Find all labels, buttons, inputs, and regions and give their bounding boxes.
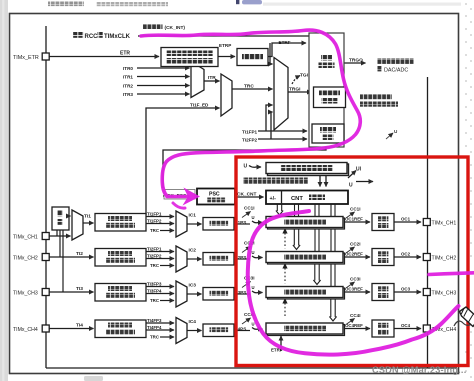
mux TRC selector <box>221 74 232 116</box>
svg-text:OC1: OC1 <box>401 217 411 222</box>
capture/compare 2 register box <box>268 253 345 264</box>
hollow down arrow into CC4 <box>330 298 332 318</box>
wire ITR0 <box>137 67 190 69</box>
mux TI1 selector <box>72 210 83 240</box>
wire IC3PS to register <box>234 293 250 295</box>
component U2: slave mode controller box <box>314 87 346 108</box>
mux IC3 selector <box>176 281 187 307</box>
svg-text:CC3I: CC3I <box>350 277 360 282</box>
mux ITR selector <box>191 62 204 98</box>
svg-text:ITR0: ITR0 <box>123 66 133 71</box>
svg-text:TRC: TRC <box>150 335 160 340</box>
svg-text:TI3FP4: TI3FP4 <box>147 289 162 294</box>
magenta pen stroke S2 big sweep around capture compare area to cursor <box>248 211 459 355</box>
svg-text:CNT: CNT <box>291 196 303 202</box>
wire XOR output <box>69 215 71 217</box>
svg-text:CC1I: CC1I <box>350 207 360 212</box>
bottom small gray tab <box>84 376 103 381</box>
svg-text:TI3FP3: TI3FP3 <box>147 282 162 287</box>
svg-text:ETRP: ETRP <box>219 43 231 48</box>
wire ETRF into capture/compare 4 <box>280 336 282 351</box>
top lavender pill ui fragment <box>242 0 262 4</box>
svg-text:TIMx_CH4: TIMx_CH4 <box>13 327 38 333</box>
wire TI4 <box>49 328 94 330</box>
svg-text:TIMx_CH1: TIMx_CH1 <box>432 220 457 226</box>
XOR block 异或 <box>52 207 69 230</box>
wire TI1FP1 <box>146 216 174 218</box>
svg-text:OC4: OC4 <box>401 323 411 328</box>
node: right pin rail <box>427 77 429 368</box>
prescaler box CH4 <box>203 324 234 337</box>
svg-text:UI: UI <box>356 167 362 173</box>
hollow down arrow into CC1 <box>276 205 278 212</box>
wire CK_PSC into PSC <box>163 195 195 197</box>
svg-text:U: U <box>252 215 255 220</box>
mux IC4 selector <box>176 318 187 344</box>
svg-text:CC1I: CC1I <box>244 206 254 211</box>
svg-text:TI2FP2: TI2FP2 <box>242 138 258 143</box>
mux TRGI selector <box>274 58 288 131</box>
wire: diagram bottom rail <box>46 367 457 369</box>
mux IC1 selector <box>176 211 187 237</box>
component: polarity selection edge detector prescaler box B1 <box>161 48 218 67</box>
wire CK_CNT PSC to counter <box>235 196 264 198</box>
wire IC1PS to register <box>234 223 250 225</box>
wire TI2FP2 <box>146 258 174 260</box>
wire OC4REF <box>344 328 370 330</box>
dotted up arrow below CC3 <box>284 303 286 318</box>
capture/compare 3 register box <box>268 288 345 299</box>
mux IC2 selector <box>176 246 187 272</box>
svg-text:TI2FP1: TI2FP1 <box>147 247 162 252</box>
wire ITR3 <box>137 93 190 95</box>
input filter and edge detector box CH2 <box>95 249 146 267</box>
svg-text:TGI: TGI <box>300 73 309 79</box>
svg-text:TI1FP1: TI1FP1 <box>147 212 162 217</box>
wire IC4PS to register <box>234 330 250 332</box>
wire TI2FP2 to encoder <box>258 138 307 140</box>
wire ETRP between polarity box and input filter <box>218 56 235 58</box>
svg-text:IC2: IC2 <box>189 248 197 254</box>
dotted up arrow below CC2 <box>284 268 286 284</box>
output control box 1 <box>372 214 394 231</box>
wire TI2 <box>49 256 94 258</box>
wire ETRF branch to TRGI mux <box>270 43 273 64</box>
svg-text:OC3: OC3 <box>401 287 411 292</box>
svg-text:ITR2: ITR2 <box>123 83 133 88</box>
magenta stroke S3 horizontal right <box>429 273 474 275</box>
label: 来自RCC的TIMxCLK <box>73 32 83 38</box>
wire TI1FP1 to encoder <box>258 130 307 132</box>
top dark dot ui fragment <box>236 0 239 4</box>
component U3: encoder interface box <box>312 124 344 143</box>
component U1: trigger controller tall box <box>309 33 344 147</box>
svg-text:TIMx_CH1: TIMx_CH1 <box>13 235 38 241</box>
wire TI1FP1 riser to TRGI mux <box>266 105 273 131</box>
wire ITR1 <box>137 76 190 78</box>
wire ETR from pin <box>49 56 159 58</box>
svg-text:U: U <box>252 250 255 255</box>
wire IC4 <box>187 330 202 332</box>
right margin dot pattern <box>465 3 472 378</box>
svg-text:TIMx_CH3: TIMx_CH3 <box>13 291 38 297</box>
svg-text:TIMxCLK: TIMxCLK <box>104 34 131 40</box>
wire TI1F_ED vertical riser <box>146 108 220 215</box>
input filter and edge detector box CH4 <box>95 320 146 338</box>
wire CK_INT internal clock <box>138 35 309 37</box>
wire TRC stub CH2 <box>160 265 174 267</box>
capture/compare 4 register box <box>268 325 345 336</box>
pin TIMx_CH2 output <box>423 254 430 261</box>
label 至其它定时器 / 至DAC/ADC <box>377 59 414 64</box>
wire CK_PSC from slave controller to prescaler <box>163 147 326 188</box>
svg-text:TRC: TRC <box>150 298 160 303</box>
svg-text:ITR: ITR <box>208 75 216 81</box>
label 复位使能向上向下计数 <box>360 94 392 99</box>
wire IC2 <box>187 258 202 260</box>
wire OC1REF <box>344 221 370 223</box>
wire ITR2 <box>137 85 190 87</box>
svg-text:IC4: IC4 <box>189 319 197 325</box>
svg-text:IC3: IC3 <box>189 283 197 289</box>
wire OC3 to pin <box>394 291 421 293</box>
svg-text:TI4FP3: TI4FP3 <box>147 318 162 323</box>
component: ETR input filter box B2 <box>237 49 268 66</box>
top strip cut-off text fragments <box>48 2 84 7</box>
svg-text:TRC: TRC <box>150 263 160 268</box>
component PSC prescaler box <box>197 189 235 205</box>
wire TI1FP2 <box>146 223 174 225</box>
dotted up arrow below CC1 <box>284 233 286 249</box>
output control box 4 <box>372 320 394 337</box>
svg-text:+/-: +/- <box>270 196 277 202</box>
component CNT counter box <box>266 191 348 205</box>
wire TI4FP4 <box>146 329 174 331</box>
pin TIMx_CH1 output <box>423 219 430 226</box>
wires XOR taps to CH1 CH2 CH3 <box>56 230 58 236</box>
svg-text:RCC: RCC <box>85 34 99 40</box>
svg-text:TIMx_CH3: TIMx_CH3 <box>432 290 457 296</box>
magenta pen stroke S1 over CK_INT down around trigger controller to PSC arrow <box>141 30 360 196</box>
svg-text:TI1FP1: TI1FP1 <box>242 130 258 135</box>
wire TRC to TRGI mux <box>232 88 273 90</box>
svg-text:ITR1: ITR1 <box>123 74 133 79</box>
magenta arrowhead at PSC <box>183 188 201 206</box>
svg-text:U: U <box>252 285 255 290</box>
output control box 3 <box>372 284 394 301</box>
svg-text:TI1FP2: TI1FP2 <box>147 219 162 224</box>
svg-text:TRGO: TRGO <box>349 58 363 64</box>
hollow down arrow into CC3 <box>314 263 316 281</box>
wire TI3 <box>49 291 94 293</box>
svg-text:ITR3: ITR3 <box>123 92 133 97</box>
pin TIMx_CH3 input <box>42 289 49 296</box>
svg-text:CSDN @Mar.23-Ing...: CSDN @Mar.23-Ing... <box>372 365 466 375</box>
pin TIMx_CH3 output <box>423 289 430 296</box>
TGI dashed event arrow <box>292 76 300 85</box>
svg-text:TI4FP4: TI4FP4 <box>147 325 162 330</box>
black squiggle near cursor <box>454 321 474 326</box>
wire OC2 to pin <box>394 256 421 258</box>
left gray page-edge strip <box>0 0 8 381</box>
hollow down arrow into CC2 <box>293 228 295 246</box>
svg-text:IC1: IC1 <box>189 213 197 219</box>
svg-text:CC4I: CC4I <box>350 313 360 318</box>
wire TI3FP3 <box>146 286 174 288</box>
svg-text:TRGI: TRGI <box>289 87 301 93</box>
wire TRC stub CH4 <box>160 336 174 338</box>
wire TRC stub CH3 <box>160 300 174 302</box>
svg-text:PSC: PSC <box>209 192 220 198</box>
svg-text:TI1F_ED: TI1F_ED <box>190 103 209 108</box>
svg-text:CC2I: CC2I <box>350 242 360 247</box>
wire TRC stub CH1 <box>160 230 174 232</box>
svg-text:U: U <box>252 322 255 327</box>
prescaler box CH1 <box>203 218 234 231</box>
wire IC2PS to register <box>234 258 250 260</box>
capture/compare 1 register box <box>268 218 345 229</box>
wire ETRF filter to trigger controller <box>268 43 306 57</box>
svg-text:TRC: TRC <box>244 84 254 90</box>
pin TIMx_ETR <box>42 53 49 60</box>
label: 内部时钟 (CK_INT) <box>143 24 163 29</box>
wire OC4 to pin <box>394 328 421 330</box>
wire OC3REF <box>344 291 370 293</box>
svg-text:TRC: TRC <box>150 228 160 233</box>
faint top hairline <box>263 3 461 6</box>
svg-text:ETRF: ETRF <box>279 40 291 45</box>
pencil cursor <box>460 307 474 327</box>
red annotation rectangle <box>236 157 468 366</box>
wire TRGI mux output <box>288 91 312 93</box>
pin TIMx_CH1 input <box>42 233 49 240</box>
input filter and edge detector box CH3 <box>95 284 146 302</box>
svg-text:U: U <box>244 164 248 170</box>
svg-text:TIMx_ETR: TIMx_ETR <box>13 55 39 61</box>
svg-text:CK_CNT: CK_CNT <box>237 192 257 198</box>
prescaler box CH2 <box>203 253 234 266</box>
pin TIMx_CH4 output <box>423 325 430 332</box>
wire TRGO output <box>344 62 366 64</box>
event arrow UI <box>348 171 356 179</box>
wire TI2FP2 riser to TRGI mux <box>271 112 273 139</box>
svg-text:(CK_INT): (CK_INT) <box>165 25 186 31</box>
label 停止清除或向上向下 <box>243 178 308 184</box>
svg-text:TIMx_CH2: TIMx_CH2 <box>13 256 38 262</box>
event mark U near encoder right <box>386 133 393 139</box>
svg-text:TI1: TI1 <box>84 214 91 220</box>
wire TI1 <box>83 222 94 224</box>
svg-text:TI2FP2: TI2FP2 <box>147 254 162 259</box>
svg-text:DAC/ADC: DAC/ADC <box>384 68 408 74</box>
output control box 2 <box>372 249 394 266</box>
pin TIMx_CH2 input <box>42 254 49 261</box>
bundle lines to lower rows <box>294 205 296 217</box>
svg-text:TIMx_CH2: TIMx_CH2 <box>432 255 457 261</box>
svg-text:TI4: TI4 <box>76 323 83 329</box>
wire TI2FP1 <box>146 251 174 253</box>
wire TI4FP3 <box>146 322 174 324</box>
label box CK_PSC <box>164 190 195 200</box>
pin TIMx_CH4 input <box>42 325 49 332</box>
prescaler box CH3 <box>203 288 234 301</box>
component ARR auto-reload register box <box>268 164 349 176</box>
wire IC1 <box>187 223 202 225</box>
wire ARR to CNT down arrows <box>319 175 321 187</box>
wire ITR mux output <box>204 80 220 82</box>
wire OC1 to pin <box>394 221 421 223</box>
wire IC3 <box>187 293 202 295</box>
wires CNT to capture/compare rows <box>276 205 337 322</box>
svg-text:TI2: TI2 <box>76 251 83 257</box>
svg-text:U: U <box>349 183 353 189</box>
input filter and edge detector box CH1 <box>95 214 146 232</box>
wire OC2REF <box>344 256 370 258</box>
svg-text:ETR: ETR <box>120 51 130 57</box>
wire TI3FP4 <box>146 293 174 295</box>
node: left pin rail <box>45 26 47 368</box>
svg-text:OC2: OC2 <box>401 252 411 257</box>
wire CH1 pin to TI1 mux <box>49 235 71 237</box>
svg-text:TI3: TI3 <box>76 286 83 292</box>
